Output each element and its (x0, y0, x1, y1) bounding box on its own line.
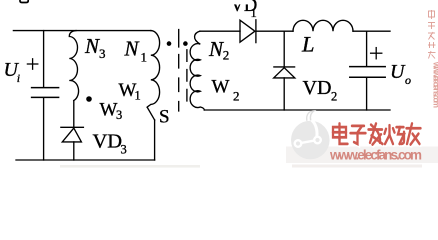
diode VD1 (240, 20, 256, 43)
polarity dot N2 (183, 41, 188, 46)
polarity dot N3 (86, 96, 92, 102)
svg-text:3: 3 (116, 108, 122, 122)
svg-text:VD: VD (303, 77, 332, 99)
wire Ui branch upper (43, 31, 45, 88)
wire L to output (353, 30, 390, 32)
label N2 (208, 37, 229, 63)
label VD2 (303, 77, 338, 104)
inductor L (293, 20, 353, 31)
label Uo (390, 61, 411, 87)
label N3 (84, 34, 106, 61)
svg-text:3: 3 (99, 46, 106, 61)
svg-text:N: N (124, 37, 140, 61)
label W3 (100, 100, 123, 123)
wire primary top rail (13, 30, 151, 32)
wire VD2 branch lower (283, 78, 285, 110)
wire secondary top (N2 to VD1) (200, 30, 240, 32)
svg-text:i: i (17, 71, 20, 85)
svg-text:W: W (100, 100, 118, 121)
wire switch to bottom rail (154, 120, 156, 160)
label W2 (212, 77, 240, 104)
faint bottom smudges (60, 165, 200, 168)
svg-text:L: L (301, 32, 315, 57)
label W1 (119, 80, 141, 103)
svg-text:3: 3 (121, 143, 127, 157)
polarity dot N1 (167, 41, 172, 46)
label VD3 (93, 131, 127, 157)
wire N3 to VD3 (73, 101, 75, 128)
switch S arm (147, 107, 154, 120)
label Ui (4, 59, 21, 85)
svg-text:o: o (405, 73, 411, 87)
svg-text:N: N (208, 37, 224, 61)
plus sign of Ui (27, 59, 37, 69)
watermark logo circle (291, 111, 330, 159)
svg-text:2: 2 (223, 48, 230, 63)
svg-text:S: S (159, 107, 170, 128)
svg-text:U: U (390, 61, 406, 83)
capacitor source Ui top plate (32, 87, 59, 89)
svg-text:2: 2 (233, 89, 240, 104)
wire output cap branch lower (366, 78, 368, 110)
winding N3 (69, 31, 78, 101)
diode VD2 (274, 67, 295, 78)
svg-text:W: W (212, 77, 230, 98)
wire VD2 branch upper (283, 31, 285, 67)
winding N1 (147, 31, 159, 108)
transformer core dashed line left (178, 30, 180, 112)
wire output cap branch upper (366, 31, 368, 66)
cropped caption glyph fragment top-left (20, 0, 28, 3)
svg-text:VD: VD (93, 131, 123, 153)
capacitor output bottom plate (350, 76, 385, 78)
plus sign of Uo (371, 48, 382, 59)
svg-text:N: N (84, 34, 100, 58)
wire primary bottom rail (16, 159, 155, 161)
wire secondary bottom rail (204, 109, 390, 111)
capacitor source Ui bottom plate (32, 96, 59, 98)
transformer core dashed line right (186, 50, 188, 103)
watermark right edge column (428, 10, 436, 59)
svg-text:2: 2 (331, 90, 337, 104)
winding N2 (190, 31, 204, 110)
svg-text:www.elecfans.com: www.elecfans.com (432, 61, 438, 108)
capacitor output top plate (350, 66, 385, 68)
label VD1 (231, 0, 258, 20)
diode VD3 (61, 127, 84, 142)
svg-text:1: 1 (135, 89, 141, 103)
wire VD3 to bottom rail (73, 142, 75, 160)
label N1 (124, 37, 148, 65)
svg-text:1: 1 (251, 6, 257, 20)
svg-text:1: 1 (141, 50, 148, 65)
svg-text:www.elecfans.com: www.elecfans.com (329, 148, 422, 163)
wire Ui branch lower (43, 98, 45, 160)
watermark band (286, 147, 438, 164)
wire VD1 to L (256, 30, 293, 32)
